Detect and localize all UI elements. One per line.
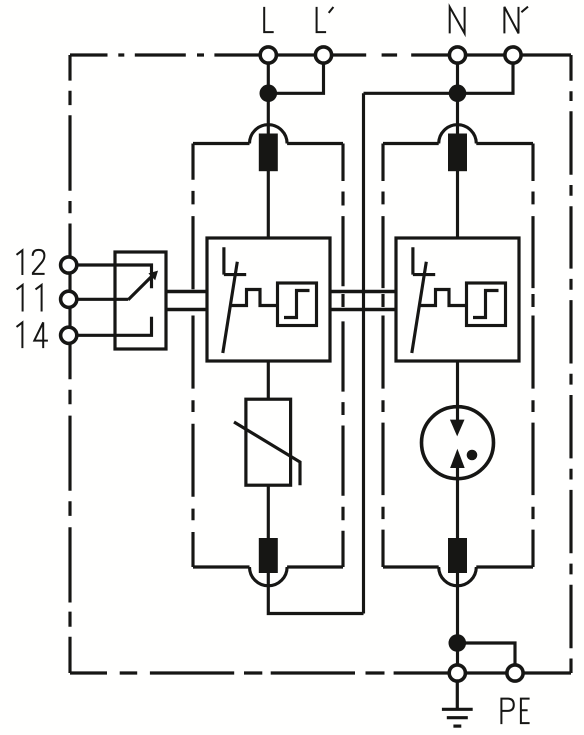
protection path 1 inner enclosure (dash-dot box, left) (193, 144, 343, 568)
fuse element F2 (black body, top of path 2) (448, 134, 467, 172)
wire L' terminal drop to junction (268, 55, 323, 93)
label N (450, 7, 465, 34)
label N' (504, 7, 528, 34)
U1 disconnect switch blade (diagonal) (223, 262, 238, 353)
fuse element F1 (black body, top of path 1) (259, 134, 278, 172)
terminal L' (315, 47, 331, 63)
thermal disconnector arc over fuse F1 (top, path 1) (250, 125, 288, 144)
junction node under N (449, 85, 467, 103)
outer device enclosure border, bottom edge (70, 671, 571, 674)
wire L terminal to junction and fuse F1 (267, 55, 270, 135)
U2 trigger box step symbol (473, 291, 499, 318)
U2 disconnect switch contact lead (413, 247, 435, 274)
terminal 12 (61, 257, 77, 273)
U1 disconnect switch contact lead (224, 247, 246, 274)
terminal PE (507, 665, 523, 681)
wire PE junction to PE terminal (457, 643, 515, 673)
switching/trigger unit U2 box (path 2) (396, 238, 519, 361)
thermal disconnector arc under fuse F3 (bottom, path 1) (250, 567, 288, 586)
wire fuse F1 to switching unit (267, 171, 270, 238)
outer device enclosure border (dash-dot), top edge (70, 53, 571, 56)
spark gap FS1 lower electrode (triangle up) (450, 449, 465, 468)
thermal disconnector arc over fuse F2 (top, path 2) (439, 125, 477, 144)
wire terminal 12 to fixed contact (69, 265, 152, 288)
terminal N' (505, 47, 521, 63)
U2 trigger box (467, 283, 506, 326)
outer device enclosure border, left edge (68, 55, 71, 673)
fuse element F3 (black body, bottom of path 1) (259, 538, 278, 573)
terminal earth (ground side) (449, 665, 465, 681)
thermal disconnector arc under fuse F4 (bottom, path 2) (439, 567, 477, 586)
label PE (501, 699, 529, 725)
terminal 14 (61, 327, 77, 343)
wire varistor RV1 to fuse F3 (267, 485, 270, 538)
U2 disconnect switch blade (diagonal) (412, 262, 427, 353)
terminal 11 (61, 291, 77, 307)
wire N' terminal drop to junction (458, 55, 514, 93)
U1 trigger box (278, 283, 317, 326)
label L (264, 7, 274, 32)
junction node PE (449, 634, 467, 652)
wire switching unit 2 to spark gap FS1 (456, 361, 459, 421)
wire fuse F2 to switching unit (456, 171, 459, 238)
wire switching unit 1 to varistor RV1 (267, 361, 270, 399)
mechanical link lines switching unit 1 to switching unit 2 (330, 292, 396, 310)
fuse element F4 (black body, bottom of path 2) (448, 538, 467, 573)
wire N terminal to junction and fuse F2 (456, 55, 459, 135)
U2 trigger pulse waveform (420, 290, 467, 306)
spark gap FS1 upper electrode (triangle down) (450, 420, 465, 437)
varistor RV1 strike-through with hook (234, 422, 300, 485)
U1 trigger box step symbol (284, 291, 310, 318)
wire bottom of path 1 to middle riser (268, 571, 363, 614)
mechanical link lines remote contact to switching unit 1 (166, 292, 207, 310)
ground symbol (442, 682, 473, 726)
wire neutral bus: junction N to middle riser (364, 92, 458, 95)
label L' (317, 7, 334, 32)
changeover switch blade (11 common arm) (128, 275, 153, 300)
switching/trigger unit U1 box (path 1) (207, 238, 330, 361)
varistor RV1 body (246, 399, 291, 485)
wire terminal 11 to common contact (69, 298, 129, 301)
remote signalling contact box (115, 252, 166, 349)
wire terminal 14 to fixed contact (69, 317, 152, 336)
terminal N (449, 47, 465, 63)
label 12 (17, 250, 45, 275)
terminal L (260, 47, 276, 63)
outer device enclosure border, right edge (569, 55, 572, 673)
label 11 (17, 285, 42, 312)
triggered spark gap FS1 circle (422, 407, 494, 479)
wire middle riser (N bus down the middle) (362, 93, 365, 613)
protection path 2 inner enclosure (dash-dot box, right) (383, 144, 533, 568)
label 14 (17, 322, 48, 348)
wire fuse F4 down to PE junction (456, 573, 459, 673)
U1 trigger pulse waveform (231, 290, 278, 306)
spark gap FS1 trigger dot (467, 450, 478, 461)
changeover switch blade arrowhead (148, 271, 158, 281)
junction node under L (260, 85, 278, 103)
wire spark gap FS1 to fuse F4 (456, 468, 459, 538)
